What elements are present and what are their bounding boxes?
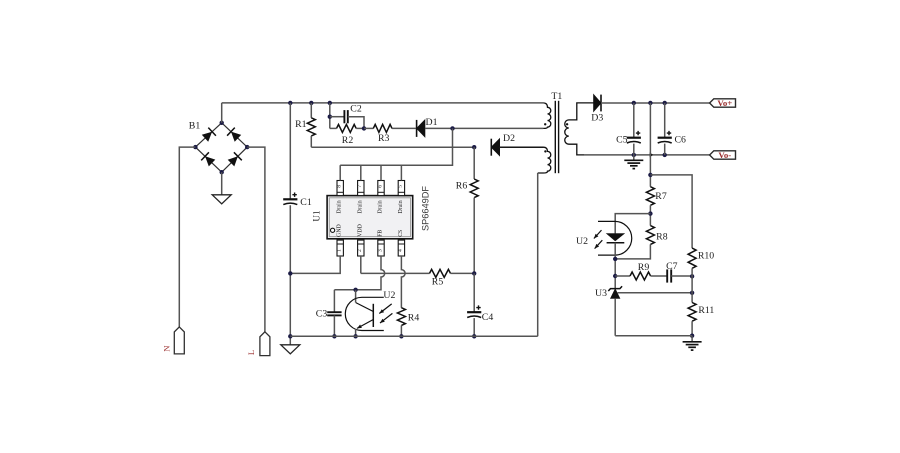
wire aux winding to primary ground rail (537, 173, 539, 336)
resistor R1 (307, 118, 315, 136)
wire Vo+ to R7 (649, 103, 651, 187)
wire LED cathode lead (614, 243, 616, 289)
pin 4 U1 bottom (398, 240, 405, 256)
pin name Drain 5 (398, 200, 404, 213)
svg-text:R10: R10 (698, 250, 714, 261)
wire R5 right lead (451, 272, 475, 274)
diode U2 optocoupler LED (598, 221, 632, 255)
wire C3 top lead (333, 290, 335, 312)
label L (246, 350, 256, 355)
svg-text:D2: D2 (503, 133, 515, 144)
wire D1 to primary bottom (425, 127, 543, 129)
node R11 ground junction (690, 334, 694, 338)
port Vo- (710, 150, 736, 160)
wire C5 top lead (633, 103, 635, 138)
wire D2 anode to aux winding (500, 146, 544, 148)
node LED cathode R8 (613, 257, 617, 261)
label C4 (482, 312, 494, 323)
svg-text:6: 6 (377, 185, 383, 188)
label R10 (698, 250, 714, 261)
label U1 (312, 210, 322, 222)
port Vo+ (710, 98, 736, 108)
wire R9 to C7 (651, 275, 668, 277)
transistor U2 emitter (357, 320, 373, 329)
pin 3 U1 bottom (377, 240, 384, 256)
svg-text:4: 4 (398, 249, 404, 252)
node R10 R11 junction (690, 291, 694, 295)
label C3 (316, 309, 328, 320)
wire C4 top lead (473, 273, 475, 312)
wire pin2 VDD line (361, 256, 430, 273)
svg-text:R11: R11 (698, 305, 714, 316)
svg-text:U1: U1 (312, 210, 322, 222)
node B1 left vertex (193, 145, 197, 149)
ground feedback divider (683, 342, 702, 350)
svg-text:N: N (162, 346, 172, 352)
wire U3 anode to R11 ground (615, 335, 692, 337)
label D2 (503, 133, 515, 144)
node GND line to C1 line (288, 271, 292, 275)
wire B1 left vertex to terminal N (179, 147, 195, 327)
wire C5 bottom lead (633, 144, 635, 155)
svg-text:C4: C4 (482, 312, 494, 323)
pin name Drain 7 (357, 200, 363, 213)
terminal L (260, 332, 270, 356)
label T1 (551, 91, 562, 102)
zener U3 (608, 286, 622, 298)
wire pin1 GND to C1 line (290, 256, 340, 273)
wire U3 anode lead (614, 298, 616, 335)
wire R3 to D1 (392, 127, 416, 129)
bridge rectifier B1 (195, 123, 247, 172)
ground primary (281, 345, 300, 354)
wire R6 bottom lead (473, 198, 475, 274)
node C1 top (288, 101, 292, 105)
transformer T1 secondary winding (565, 103, 594, 155)
node FB phototransistor junction (353, 288, 357, 292)
svg-text:Drain: Drain (378, 200, 384, 213)
svg-text:D3: D3 (591, 112, 603, 123)
label R11 (698, 305, 714, 316)
wire C4 bottom lead (473, 318, 475, 336)
svg-text:U2: U2 (576, 236, 588, 247)
diode D1 (417, 120, 425, 137)
node T1 aux polarity dot (544, 150, 546, 152)
svg-text:R4: R4 (408, 313, 420, 324)
wire Vo- rail (584, 154, 710, 156)
pin name FB (378, 230, 384, 237)
svg-text:3: 3 (377, 249, 383, 252)
wire R11 bottom lead (691, 321, 693, 336)
label R6 (456, 180, 468, 191)
capacitor C5 (627, 131, 641, 143)
wire C7 right lead (671, 275, 692, 277)
node emitter ground (353, 334, 357, 338)
wire R2 right lead (356, 127, 364, 129)
transformer T1 auxiliary winding (500, 147, 551, 173)
wire D3 cathode to Vo+ rail (601, 102, 710, 104)
wire B1 right vertex to terminal L (247, 147, 265, 332)
node T1 secondary polarity dot (566, 123, 568, 125)
wire C2 left lead (330, 116, 345, 118)
pin name GND (337, 224, 343, 237)
resistor R5 (430, 269, 451, 277)
wire primary ground rail (290, 335, 537, 337)
node snubber top (328, 101, 332, 105)
wire R1 bottom lead (310, 136, 312, 147)
node B1 right vertex (245, 145, 249, 149)
wire R3 left lead (364, 127, 373, 129)
node T1 primary polarity dot (544, 123, 546, 125)
svg-text:Drain: Drain (337, 200, 343, 213)
capacitor C3 (327, 312, 341, 315)
svg-text:VDD: VDD (357, 224, 363, 237)
svg-text:R9: R9 (638, 262, 650, 273)
svg-text:C3: C3 (316, 309, 328, 320)
wire phototransistor emitter lead (355, 329, 357, 337)
node R7 R8 LED junction (648, 211, 652, 215)
pin 5 U1 top (398, 181, 405, 196)
svg-text:2: 2 (357, 249, 363, 252)
wire R6 top lead (473, 147, 475, 179)
resistor R7 (646, 187, 654, 206)
resistor R10 (688, 248, 696, 268)
wire pin3 FB to C3 (334, 256, 384, 290)
capacitor C4 (467, 305, 481, 317)
label R3 (378, 133, 390, 144)
wire U3 ref wire (618, 292, 693, 294)
wire C2 right lead (348, 117, 364, 129)
pin 1 U1 bottom (337, 240, 344, 256)
wire U1 drain pin leads (340, 165, 401, 180)
resistor R6 (470, 179, 478, 198)
label R7 (655, 191, 667, 202)
op-amp U1 body (327, 196, 413, 239)
resistor R2 (337, 124, 357, 132)
label D3 (591, 112, 603, 123)
label U2 phototransistor (383, 290, 395, 301)
svg-text:R8: R8 (656, 232, 668, 243)
svg-text:D1: D1 (426, 117, 438, 128)
node C2 left branch (328, 115, 332, 119)
node C5 top (632, 101, 636, 105)
wire ground lead right (691, 336, 693, 342)
node B1 top vertex (220, 121, 224, 125)
resistor R9 (630, 272, 651, 280)
label R8 (656, 232, 668, 243)
svg-text:R5: R5 (432, 277, 444, 288)
node C6 bottom (663, 153, 667, 157)
svg-text:R7: R7 (655, 191, 667, 202)
light arrows out of U2 (594, 230, 602, 249)
label C7 (666, 261, 678, 272)
capacitor C6 (658, 131, 672, 143)
node C7 R10 junction (690, 274, 694, 278)
label C2 (350, 104, 362, 115)
node C5 bottom (632, 153, 636, 157)
transformer T1 primary winding (543, 103, 551, 128)
label B1 (189, 121, 201, 132)
wire R4 bottom lead (400, 325, 402, 336)
svg-text:C1: C1 (300, 197, 312, 208)
svg-text:GND: GND (337, 224, 343, 237)
svg-text:C5: C5 (616, 134, 628, 145)
wire C6 bottom lead (664, 144, 666, 155)
capacitor C1 (283, 193, 297, 205)
pin 1 indicator circle U1 (331, 228, 335, 232)
wire B+ rail (222, 102, 544, 104)
wire B1 bottom lead (221, 172, 223, 195)
svg-text:R6: R6 (456, 180, 468, 191)
wire pin4 CS to R4 (401, 256, 405, 308)
label U2 LED (576, 236, 588, 247)
resistor R8 (646, 226, 654, 245)
resistor R11 (688, 303, 696, 322)
node C4 ground (472, 334, 476, 338)
svg-text:T1: T1 (551, 91, 562, 102)
node feedback branch top (648, 101, 652, 105)
wire R1 top lead (310, 103, 312, 118)
svg-text:Vo-: Vo- (718, 150, 731, 160)
svg-text:R3: R3 (378, 133, 390, 144)
resistor R3 (373, 124, 392, 132)
pin 7 U1 top (357, 181, 364, 196)
wire C5 ground lead (633, 155, 635, 160)
label R4 (408, 313, 420, 324)
ground below B1 (212, 195, 231, 204)
node C3 ground (332, 334, 336, 338)
wire drain bus (340, 128, 452, 165)
pin 8 U1 top (337, 181, 344, 196)
svg-text:Vo+: Vo+ (717, 98, 732, 108)
wire R1 to D2 node (311, 146, 474, 148)
diode D2 (491, 139, 499, 156)
svg-text:L: L (246, 350, 256, 355)
resistor R4 (397, 308, 405, 326)
wire R7 to R8 (649, 205, 651, 225)
svg-text:1: 1 (337, 249, 343, 252)
capacitor C2 (344, 110, 347, 123)
svg-text:8: 8 (337, 185, 343, 188)
pin name Drain 6 (378, 200, 384, 213)
svg-text:Drain: Drain (357, 200, 363, 213)
wire branch to R10 (650, 175, 692, 248)
pin 6 U1 top (377, 181, 384, 196)
svg-text:FB: FB (378, 230, 384, 237)
node primary ground rail start (288, 334, 292, 338)
node drain junction (450, 126, 454, 130)
label SP6649DF (420, 186, 430, 231)
wire phototransistor collector lead (355, 290, 357, 303)
svg-text:5: 5 (398, 185, 404, 188)
pin name CS (398, 230, 404, 237)
svg-text:7: 7 (357, 185, 363, 188)
pin name VDD (357, 224, 363, 237)
svg-text:C2: C2 (350, 104, 362, 115)
transistor U2 phototransistor (345, 297, 384, 330)
wire B1 top lead (221, 103, 223, 123)
node R9 branch (613, 274, 617, 278)
pin name Drain 8 (337, 200, 343, 213)
svg-text:C7: C7 (666, 261, 678, 272)
label U3 (595, 288, 607, 299)
node VDD C4 junction (472, 271, 476, 275)
node R2 R3 junction (362, 126, 366, 130)
node R1 top (309, 101, 313, 105)
wire C6 top lead (664, 103, 666, 138)
wire C1 bottom lead (289, 205, 291, 345)
label C5 (616, 134, 628, 145)
ground secondary output (624, 160, 643, 168)
label D1 (426, 117, 438, 128)
svg-text:C6: C6 (674, 134, 686, 145)
node C6 top (663, 101, 667, 105)
transformer T1 core (555, 101, 558, 173)
svg-text:SP6649DF: SP6649DF (420, 186, 430, 231)
diode D3 (594, 95, 601, 112)
svg-text:U2: U2 (383, 290, 395, 301)
junction marker on Vo- rail (650, 152, 654, 157)
label R1 (295, 119, 307, 130)
node R10 branch (648, 173, 652, 177)
pin 2 U1 bottom (357, 240, 364, 256)
svg-text:CS: CS (398, 230, 404, 237)
node B1 bottom vertex (220, 170, 224, 174)
wire LED anode wire (615, 214, 650, 234)
wire R10 to R11 (691, 268, 693, 302)
svg-text:U3: U3 (595, 288, 607, 299)
light arrows into U2 (379, 304, 392, 323)
svg-text:Drain: Drain (398, 200, 404, 213)
node R6 D2 junction (472, 145, 476, 149)
label C1 (300, 197, 312, 208)
wire R9 left lead (615, 275, 630, 277)
svg-text:R1: R1 (295, 119, 307, 130)
label R2 (342, 135, 354, 146)
node R4 ground (399, 334, 403, 338)
label R9 (638, 262, 650, 273)
label R5 (432, 277, 444, 288)
wire C3 bottom lead (333, 315, 335, 336)
wire R8 bottom wire (615, 244, 650, 259)
wire R2 left lead (330, 127, 337, 129)
label N (162, 346, 172, 352)
svg-text:R2: R2 (342, 135, 354, 146)
terminal N (174, 327, 184, 354)
label C6 (674, 134, 686, 145)
svg-text:B1: B1 (189, 121, 201, 132)
capacitor C7 (667, 269, 671, 282)
wire C1 top lead (289, 103, 291, 199)
wire snubber left vertical (329, 103, 331, 128)
